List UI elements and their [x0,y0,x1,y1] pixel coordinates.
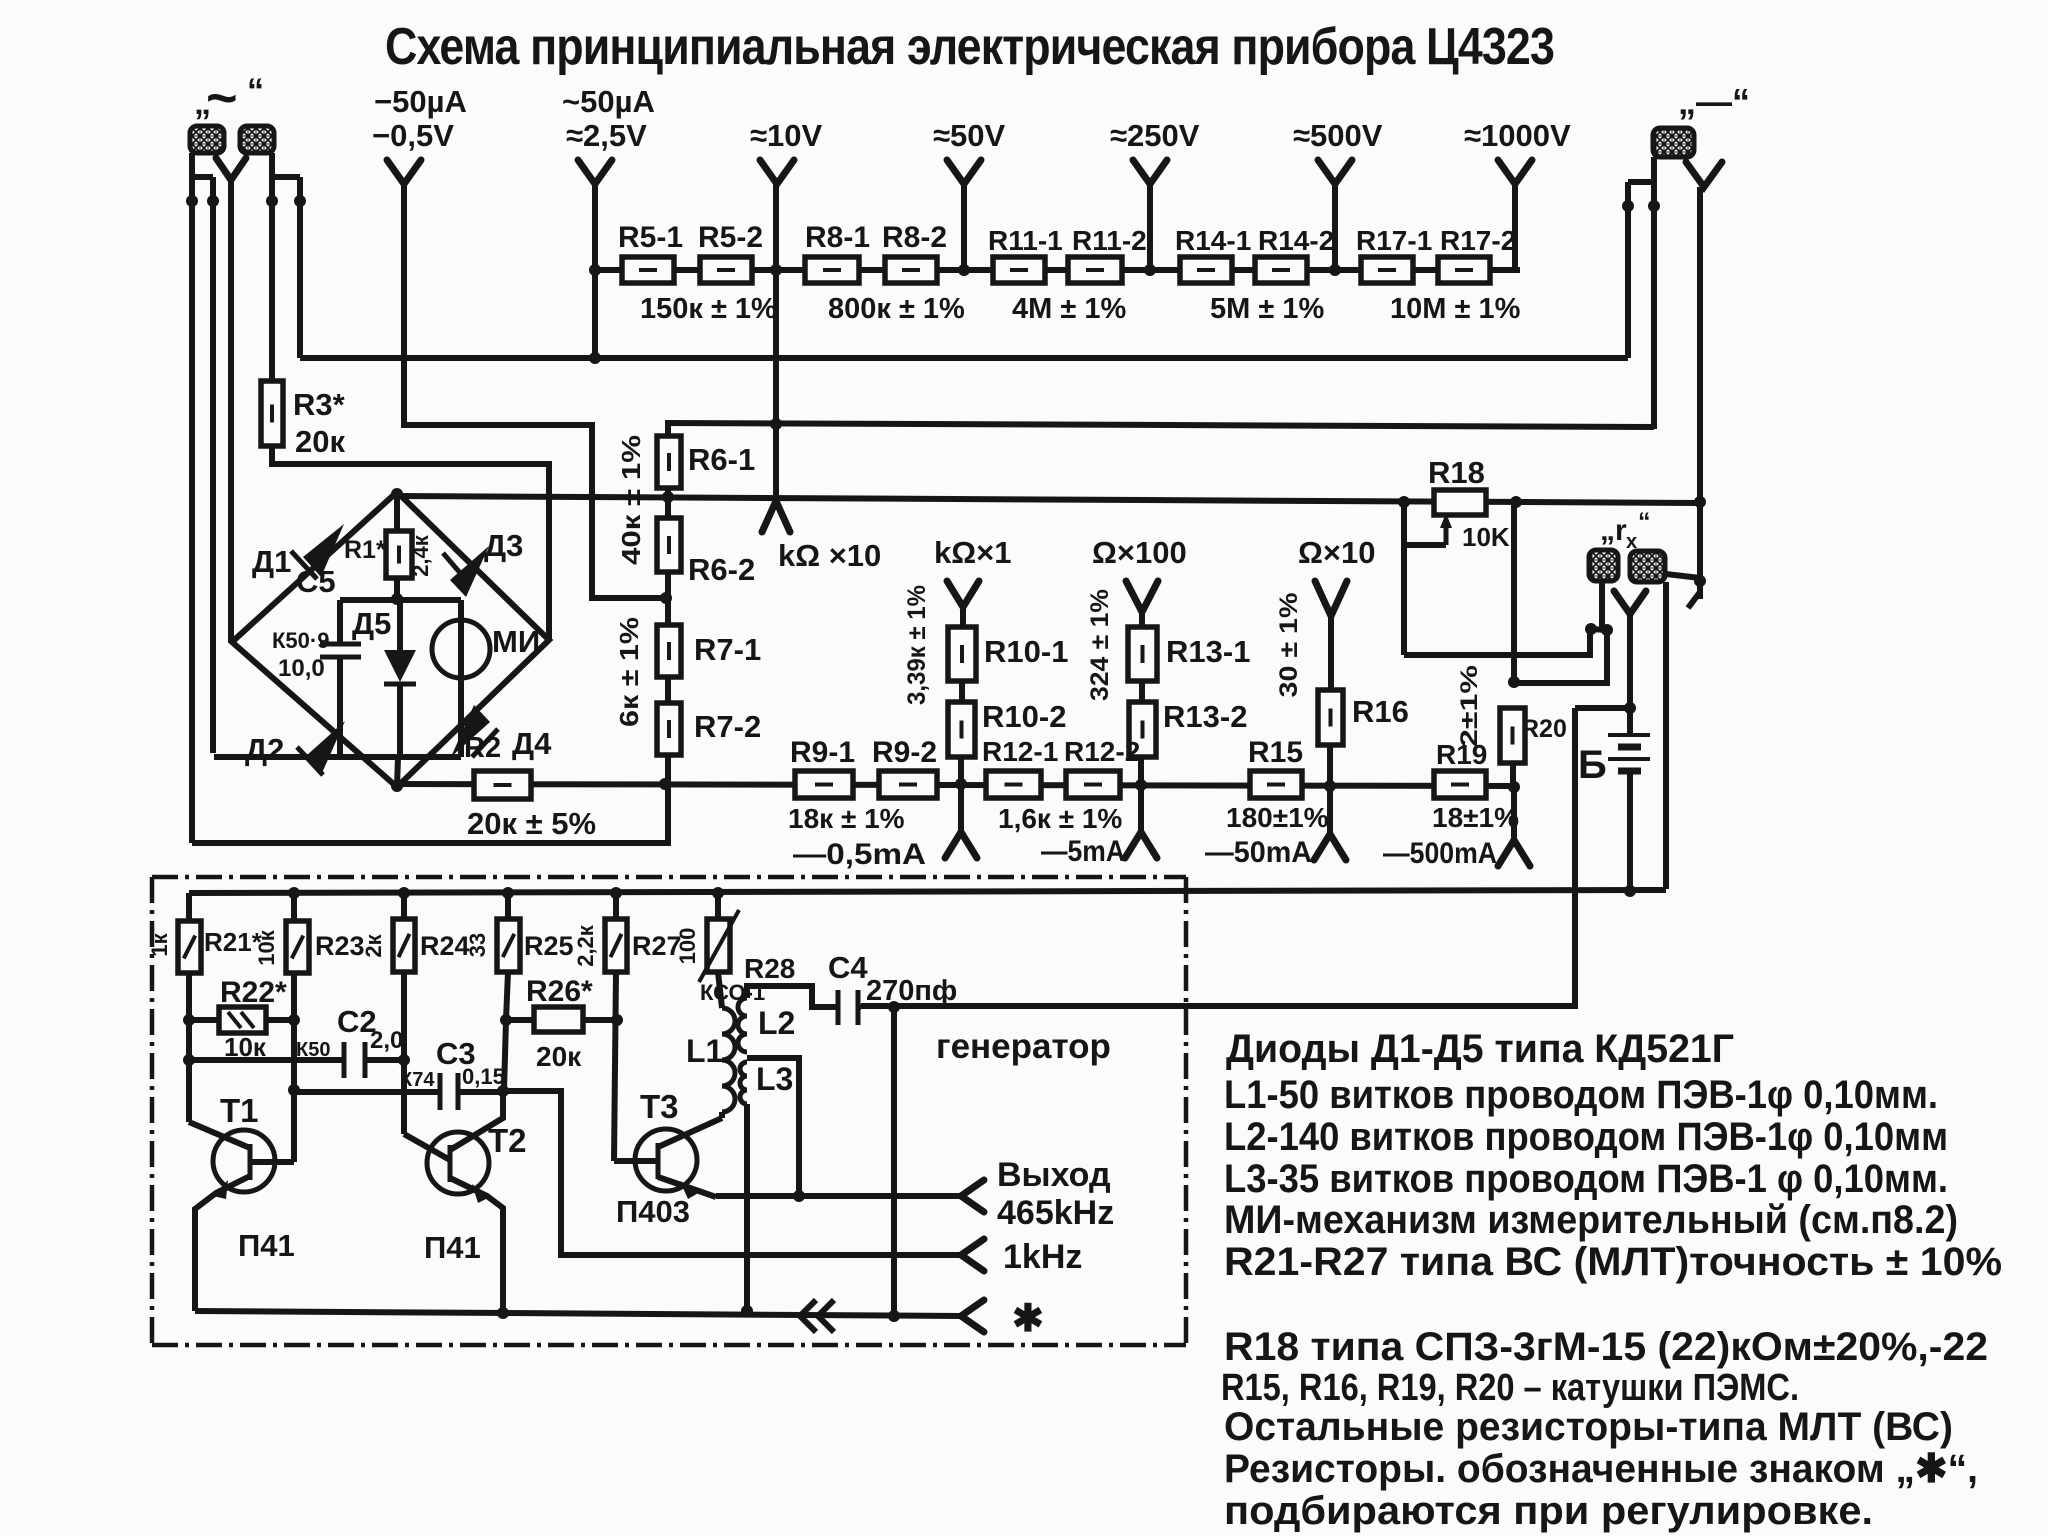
resistor R2 [474,771,531,799]
svg-text:R13-2: R13-2 [1163,699,1247,734]
svg-text:≈2,5V: ≈2,5V [566,118,647,153]
svg-text:Выход: Выход [997,1156,1111,1194]
svg-text:R26*: R26* [526,975,593,1008]
meter МИ needle line [458,600,464,757]
transistor T1 (П41) [213,1130,275,1192]
svg-text:kΩ×1: kΩ×1 [934,535,1011,570]
T2 emitter arrow [472,1184,490,1203]
junction dots under terminal A [186,195,198,207]
wire R27 column down to T3 [614,972,616,1161]
wire 500V column [1332,184,1338,270]
diode Д3 arrow [450,546,489,597]
svg-text:—500mA: —500mA [1383,837,1497,870]
svg-text:R1*: R1* [344,536,386,564]
node R25/R26 [500,1014,512,1026]
resistor R14-1 [1180,257,1232,283]
wire output * (common bus) [195,1311,961,1316]
wire bus E left end into R21 [186,893,192,921]
svg-text:Т3: Т3 [640,1088,679,1125]
svg-text:100: 100 [675,928,700,965]
svg-text:✱: ✱ [1012,1298,1044,1340]
svg-text:КСО-1: КСО-1 [700,980,765,1005]
resistor R22* [189,1017,219,1023]
svg-text:5М ± 1%: 5М ± 1% [1210,293,1324,325]
fork at „−“ terminal [1686,162,1722,187]
svg-text:R17-2: R17-2 [1440,225,1516,256]
svg-text:≈1000V: ≈1000V [1464,118,1571,153]
T3 base wire [614,1158,658,1164]
svg-text:Диоды Д1-Д5 типа КД521Г: Диоды Д1-Д5 типа КД521Г [1226,1027,1734,1071]
svg-text:33: 33 [465,933,490,957]
loop wire terminal A to bus D [192,784,668,843]
resistor R27 [613,893,619,919]
T3 collector wire [658,1118,722,1147]
svg-text:R12-2: R12-2 [1064,736,1140,767]
svg-text:К50·9: К50·9 [272,628,329,653]
svg-text:„r: „r [1600,514,1627,547]
node C2 right [398,1054,410,1066]
bus B (AC volts return) [665,423,1654,427]
svg-text:R11-1: R11-1 [988,225,1063,256]
svg-text:2,2к: 2,2к [573,924,598,967]
node R23/R22 [288,1014,300,1026]
hook contact at stem bottom [1688,592,1700,608]
bus D (ohm/current bus) [397,784,1514,786]
wire terminal „−“ down to AC bus [1651,157,1657,429]
svg-text:R18 типа СПЗ-3гМ-15 (22)кОм±: R18 типа СПЗ-3гМ-15 (22)кОм±20%,-22 [1224,1325,1988,1369]
fork −500mA [1511,789,1517,840]
svg-text:Остальные резисторы-типа МЛТ: Остальные резисторы-типа МЛТ (ВС) [1224,1405,1953,1449]
node common bus dots [497,1307,509,1319]
wire L2/L3 tap to emitter line [747,1058,799,1196]
terminal „~“ jack B [240,126,274,153]
diode Д4 arrow [451,705,490,757]
wire 2,5V column [592,184,598,358]
svg-text:R10-2: R10-2 [982,699,1066,734]
svg-text:R17-1: R17-1 [1356,225,1432,256]
resistor R16 [1318,690,1343,745]
terminal „~“ jack A [190,126,224,153]
svg-text:Д4: Д4 [512,726,552,761]
svg-text:R9-1: R9-1 [790,736,855,769]
svg-text:18±1%: 18±1% [1432,802,1519,833]
resistor R18 (potentiometer) [1434,490,1486,515]
resistor R23 [291,893,297,921]
svg-text:Схема принципиальная электри: Схема принципиальная электрическая прибо… [385,18,1554,76]
resistor R13-1 [1128,627,1157,681]
wire kΩ×1 to R10-1 [960,607,966,627]
svg-text:10,0: 10,0 [278,655,325,682]
node R15/R16 junction [1324,780,1336,792]
T1 emitter arrow [213,1180,228,1199]
svg-text:С4: С4 [828,950,868,985]
svg-text:~50µA: ~50µA [562,84,655,119]
svg-text:R8-2: R8-2 [882,221,947,254]
resistor R3* [261,381,283,446]
fork 1000V input [1498,160,1532,184]
wire 50V column [961,184,967,270]
wire terminal B down through R3 [269,153,275,381]
svg-text:Д5: Д5 [352,606,391,641]
wire R21 column [186,973,192,1122]
svg-text:20к ± 5%: 20к ± 5% [467,806,596,841]
node battery bottom [1624,885,1636,897]
R18 wiper arrow [1444,519,1449,545]
T1 emitter wire [195,1176,250,1311]
svg-text:L2-140 витков проводом ПЭВ-1φ: L2-140 витков проводом ПЭВ-1φ 0,10мм [1224,1115,1948,1159]
fork kΩ×1 [947,581,979,607]
wire R18 left down to rx bus [1401,545,1407,655]
chevron « mark [800,1300,834,1332]
svg-text:R10-1: R10-1 [984,634,1068,669]
wire C5 [337,600,343,644]
wire rx-right jack down to bus E [1663,582,1669,889]
inner top bar [340,597,461,603]
wire C4 right [858,1004,861,1010]
svg-text:≈10V: ≈10V [750,118,822,153]
wire R13-2 to bus D [1138,757,1144,785]
resistor R5-2 [700,257,752,283]
svg-text:20к: 20к [295,424,345,459]
svg-text:Ω×10: Ω×10 [1298,535,1375,570]
svg-text:≈500V: ≈500V [1293,118,1383,153]
wire rx fork stem [1627,614,1633,708]
svg-text:R7-2: R7-2 [694,709,761,744]
svg-text:1,6к ± 1%: 1,6к ± 1% [998,803,1122,834]
bus R20 to rx jack [1514,631,1607,683]
wire 250V column [1147,184,1153,271]
resistor R20 [1500,708,1525,763]
svg-text:Д3: Д3 [484,528,523,563]
svg-text:Ω×100: Ω×100 [1092,535,1187,570]
wire terminal A down-left [189,153,195,843]
T1 collector wire [189,1122,250,1148]
resistor R17-2 [1438,257,1490,283]
wire R10-1 to R10-2 [959,681,965,702]
wire HV divider chain [595,267,1520,273]
wire output 1kHz [503,1091,961,1255]
fork −5mA [1138,788,1144,832]
dots near „−“ terminal [1622,200,1634,212]
svg-text:L3: L3 [756,1061,793,1097]
svg-text:R11-2: R11-2 [1072,225,1147,256]
resistor R14-2 [1255,257,1307,283]
svg-text:R25: R25 [524,931,574,961]
svg-text:≈250V: ≈250V [1110,118,1200,153]
junction dots on chain [589,264,601,276]
wire C3 line [294,1089,440,1095]
svg-text:150к ± 1%: 150к ± 1% [640,293,777,325]
node bridge bottom apex [391,780,403,792]
svg-text:L3-35 витков проводом ПЭВ-1: L3-35 витков проводом ПЭВ-1 φ 0,10мм. [1224,1157,1948,1201]
svg-text:R9-2: R9-2 [872,736,937,769]
wire R1 to inner top bar [394,578,400,600]
svg-text:L1: L1 [686,1033,723,1069]
junction dots under terminal B [266,195,278,207]
svg-text:R23: R23 [315,931,365,961]
fork −50µA input [387,160,421,184]
svg-text:6к ± 1%: 6к ± 1% [614,617,644,727]
svg-text:270пф: 270пф [866,975,957,1007]
node R6/R7 junction [660,592,672,604]
svg-text:подбираются при регулировке.: подбираются при регулировке. [1224,1489,1873,1533]
node C4 line junction [888,1001,900,1013]
svg-text:3,39к ± 1%: 3,39к ± 1% [903,585,931,705]
wire battery bus to x1575 [1575,705,1630,711]
svg-text:Б: Б [1578,743,1607,787]
svg-text:С5: С5 [296,564,336,599]
node R21/R22 [183,1014,195,1026]
fork −0,5mA [958,787,964,832]
wire battery top lead [1627,708,1633,735]
bus A (µA common) [300,355,1628,361]
wire rx-left jack down [1599,581,1605,629]
svg-text:−0,5V: −0,5V [372,118,454,153]
fork 500V input [1318,160,1352,184]
bus C (kOhm measuring bus) [397,496,1700,503]
svg-text:180±1%: 180±1% [1226,802,1329,833]
wire −50µA down and jog to R6/R7 junction [404,184,666,598]
svg-text:R6-2: R6-2 [688,552,755,587]
node bus E dots [288,887,300,899]
battery Б cells [1608,733,1650,737]
svg-text:465kHz: 465kHz [997,1194,1114,1232]
resistor R1* [386,531,412,578]
svg-text:Д1: Д1 [252,544,291,579]
fork kΩ×10 contact [762,501,790,532]
wire output 465kHz [716,1193,961,1199]
svg-text:П41: П41 [238,1228,295,1263]
wire ohm loop x=1575 [861,708,1575,1006]
svg-text:R20: R20 [1521,715,1567,743]
wire R20 to bus D [1510,763,1516,787]
svg-text:10М ± 1%: 10М ± 1% [1390,293,1521,325]
wire 1000V column to chain end [1515,184,1520,270]
node R12/R13 junction [1135,779,1147,791]
transistor T3 (П403) [635,1129,697,1191]
svg-text:Д2: Д2 [245,732,284,767]
svg-text:R24: R24 [420,931,470,961]
svg-text:10K: 10K [1462,522,1510,552]
node L3 bottom [741,1305,753,1317]
fork 2,5V input [578,160,612,184]
node R2-R7 junction [659,778,671,790]
svg-text:—50mA: —50mA [1205,836,1312,869]
svg-text:R8-1: R8-1 [805,221,870,254]
svg-text:„—“: „—“ [1678,81,1750,122]
diode Д5 [397,600,403,650]
wire R7-2 to bus D [665,755,671,784]
svg-text:К50: К50 [296,1039,330,1061]
fork −50mA [1327,788,1333,834]
wire C2 line [189,1057,344,1063]
svg-text:4М ± 1%: 4М ± 1% [1012,293,1126,325]
svg-text:R21-R27 типа ВС (МЛТ)точность: R21-R27 типа ВС (МЛТ)точность ± 10% [1224,1240,2002,1284]
wire R28 to L1 [718,972,722,1008]
rx jack right [1630,551,1665,582]
svg-text:МИ: МИ [492,624,540,659]
wire L3 bottom to * bus [744,1104,750,1311]
fork output 465kHz [961,1180,984,1212]
resistor R6-2 [665,497,671,518]
hook bus-A to terminal „−“ [1625,182,1631,358]
resistor R28 [715,893,721,919]
svg-text:1kHz: 1kHz [1003,1238,1082,1276]
fork Ω×100 [1126,581,1158,612]
node R9/R10 junction [955,778,967,790]
rx jack left [1589,550,1618,581]
resistor R25 [505,893,511,919]
fork rx (ohm probe) [1614,591,1646,614]
bus E (supply bus) [189,890,1666,893]
svg-text:R2: R2 [464,732,501,764]
svg-text:R15, R16, R19, R20 – катушки: R15, R16, R19, R20 – катушки ПЭМС. [1221,1367,1799,1409]
wire R10-2 to bus D [958,757,964,784]
meter МИ circle [432,620,490,678]
svg-text:2к: 2к [361,933,386,957]
node R19/R20 junction [1508,781,1520,793]
wire common down from C4 line [891,1007,897,1316]
capacitor C5 plates [320,642,361,647]
svg-text:0,15: 0,15 [462,1064,505,1089]
dots on „−“ stem [1694,496,1706,508]
resistor R11-1 [993,257,1045,283]
svg-text:—5mA: —5mA [1041,835,1125,868]
wire bottom bar to bottom apex [397,757,398,787]
wire battery bottom lead [1627,771,1633,891]
svg-text:324 ± 1%: 324 ± 1% [1086,589,1114,701]
svg-text:R12-1: R12-1 [982,736,1058,767]
wire „−“ fork stem down [1697,187,1703,599]
node C3 right / T2 collector [497,1085,509,1097]
resistor R17-1 [1361,257,1413,283]
svg-text:R7-1: R7-1 [694,632,761,667]
wire jack-right to „−“ stem [1666,574,1700,578]
svg-text:R14-2: R14-2 [1258,225,1334,256]
svg-text:“: “ [247,72,264,110]
wire R13-1 to R13-2 [1139,681,1145,702]
resistor R5-1 [622,257,674,283]
inductor L1 [722,1008,735,1112]
wire Ω×100 to R13-1 [1139,612,1145,627]
resistor R8-1 [805,257,859,283]
T3 emitter wire [658,1177,716,1197]
fork 50V input [947,160,981,184]
svg-text:2±1%: 2±1% [1456,665,1483,747]
svg-text:“: “ [1638,508,1651,536]
svg-text:R3*: R3* [293,387,346,422]
inductor L2 [738,998,747,1052]
svg-text:R16: R16 [1352,694,1409,729]
resistor R24 [401,893,407,919]
svg-text:≈50V: ≈50V [933,118,1005,153]
resistor R7-2 [657,703,681,755]
T2 collector wire [450,1091,503,1150]
resistor R11-2 [1068,257,1122,283]
resistor R19 [1434,771,1486,798]
node R20 top [1508,676,1520,688]
node battery top [1624,702,1636,714]
wire R24 column [401,972,407,1134]
svg-text:18к ± 1%: 18к ± 1% [788,803,905,834]
svg-text:20к: 20к [536,1041,582,1072]
svg-text:10к: 10к [254,929,279,965]
capacitor C2 plates [342,1042,347,1078]
svg-text:Т2: Т2 [488,1122,527,1159]
wire R3 bottom to bridge right apex [272,446,549,640]
switch fork between ~ jacks [216,158,246,180]
svg-text:L1-50 витков проводом ПЭВ-1φ: L1-50 витков проводом ПЭВ-1φ 0,10мм. [1224,1073,1938,1117]
svg-text:—0,5mA: —0,5mA [793,838,926,871]
svg-text:−50µA: −50µA [374,84,467,119]
resistor R13-2 [1129,702,1156,757]
fork output * [961,1300,984,1332]
svg-text:~: ~ [206,68,238,128]
wire R6-2 to junction [665,572,671,625]
transistor T2 (П41) [427,1132,489,1194]
wire dots tie [1591,629,1607,630]
fork 250V input [1133,160,1167,184]
fork Ω×10 [1315,581,1347,616]
wire bus C right to R20 column [1511,502,1517,682]
node R27/R26 [611,1014,623,1026]
wire R16 to bus D [1327,745,1333,786]
svg-text:R5-1: R5-1 [618,221,683,254]
diode Д2 arrow [306,721,345,773]
generator frame (dash-dot) [152,877,1186,1345]
svg-text:R15: R15 [1248,736,1303,769]
svg-text:40к ± 1%: 40к ± 1% [616,435,646,565]
resistor R7-1 [657,625,681,677]
node rx-left dots [1585,623,1597,635]
wire L2 top to C4 [747,986,838,1007]
R18 wiper wire to left terminal [1404,542,1446,548]
wire Ω×10 to R16 [1328,616,1334,690]
resistor R10-2 [948,702,975,757]
bus rx-left (R18 to rx jack) [1404,630,1590,655]
resistor R9-2 [879,771,937,798]
resistor R12-1 [986,771,1041,798]
capacitor C3 plates [438,1073,443,1110]
wire R23 column [291,973,297,1162]
capacitor C4 plates [836,990,841,1025]
wire R6-1 bottom to bus C [665,488,671,497]
svg-text:R6-1: R6-1 [688,442,755,477]
T1 base wire [250,1159,294,1165]
wire apex to R1 [394,494,400,531]
svg-text:МИ-механизм измерительный (с: МИ-механизм измерительный (см.п8.2) [1224,1198,1958,1242]
wire R7-1 to R7-2 [665,677,671,703]
svg-text:kΩ ×10: kΩ ×10 [778,538,881,573]
fork 10V input [760,160,794,184]
fork output 1kHz [961,1239,984,1271]
svg-text:2,0: 2,0 [370,1027,403,1054]
T2 base wire [404,1134,450,1160]
resistor R15 [1250,771,1302,798]
T2 emitter wire [450,1178,503,1313]
svg-text:R22*: R22* [220,976,287,1009]
svg-text:Т1: Т1 [220,1092,259,1129]
resistor R8-2 [885,257,937,283]
resistor R12-2 [1066,771,1120,798]
svg-text:1к: 1к [147,932,172,956]
svg-text:генератор: генератор [936,1027,1111,1066]
svg-text:L2: L2 [758,1005,795,1041]
resistor R10-1 [948,627,976,681]
inner bottom bar [214,754,461,760]
svg-text:R14-1: R14-1 [1175,225,1251,256]
svg-text:П41: П41 [424,1230,481,1265]
